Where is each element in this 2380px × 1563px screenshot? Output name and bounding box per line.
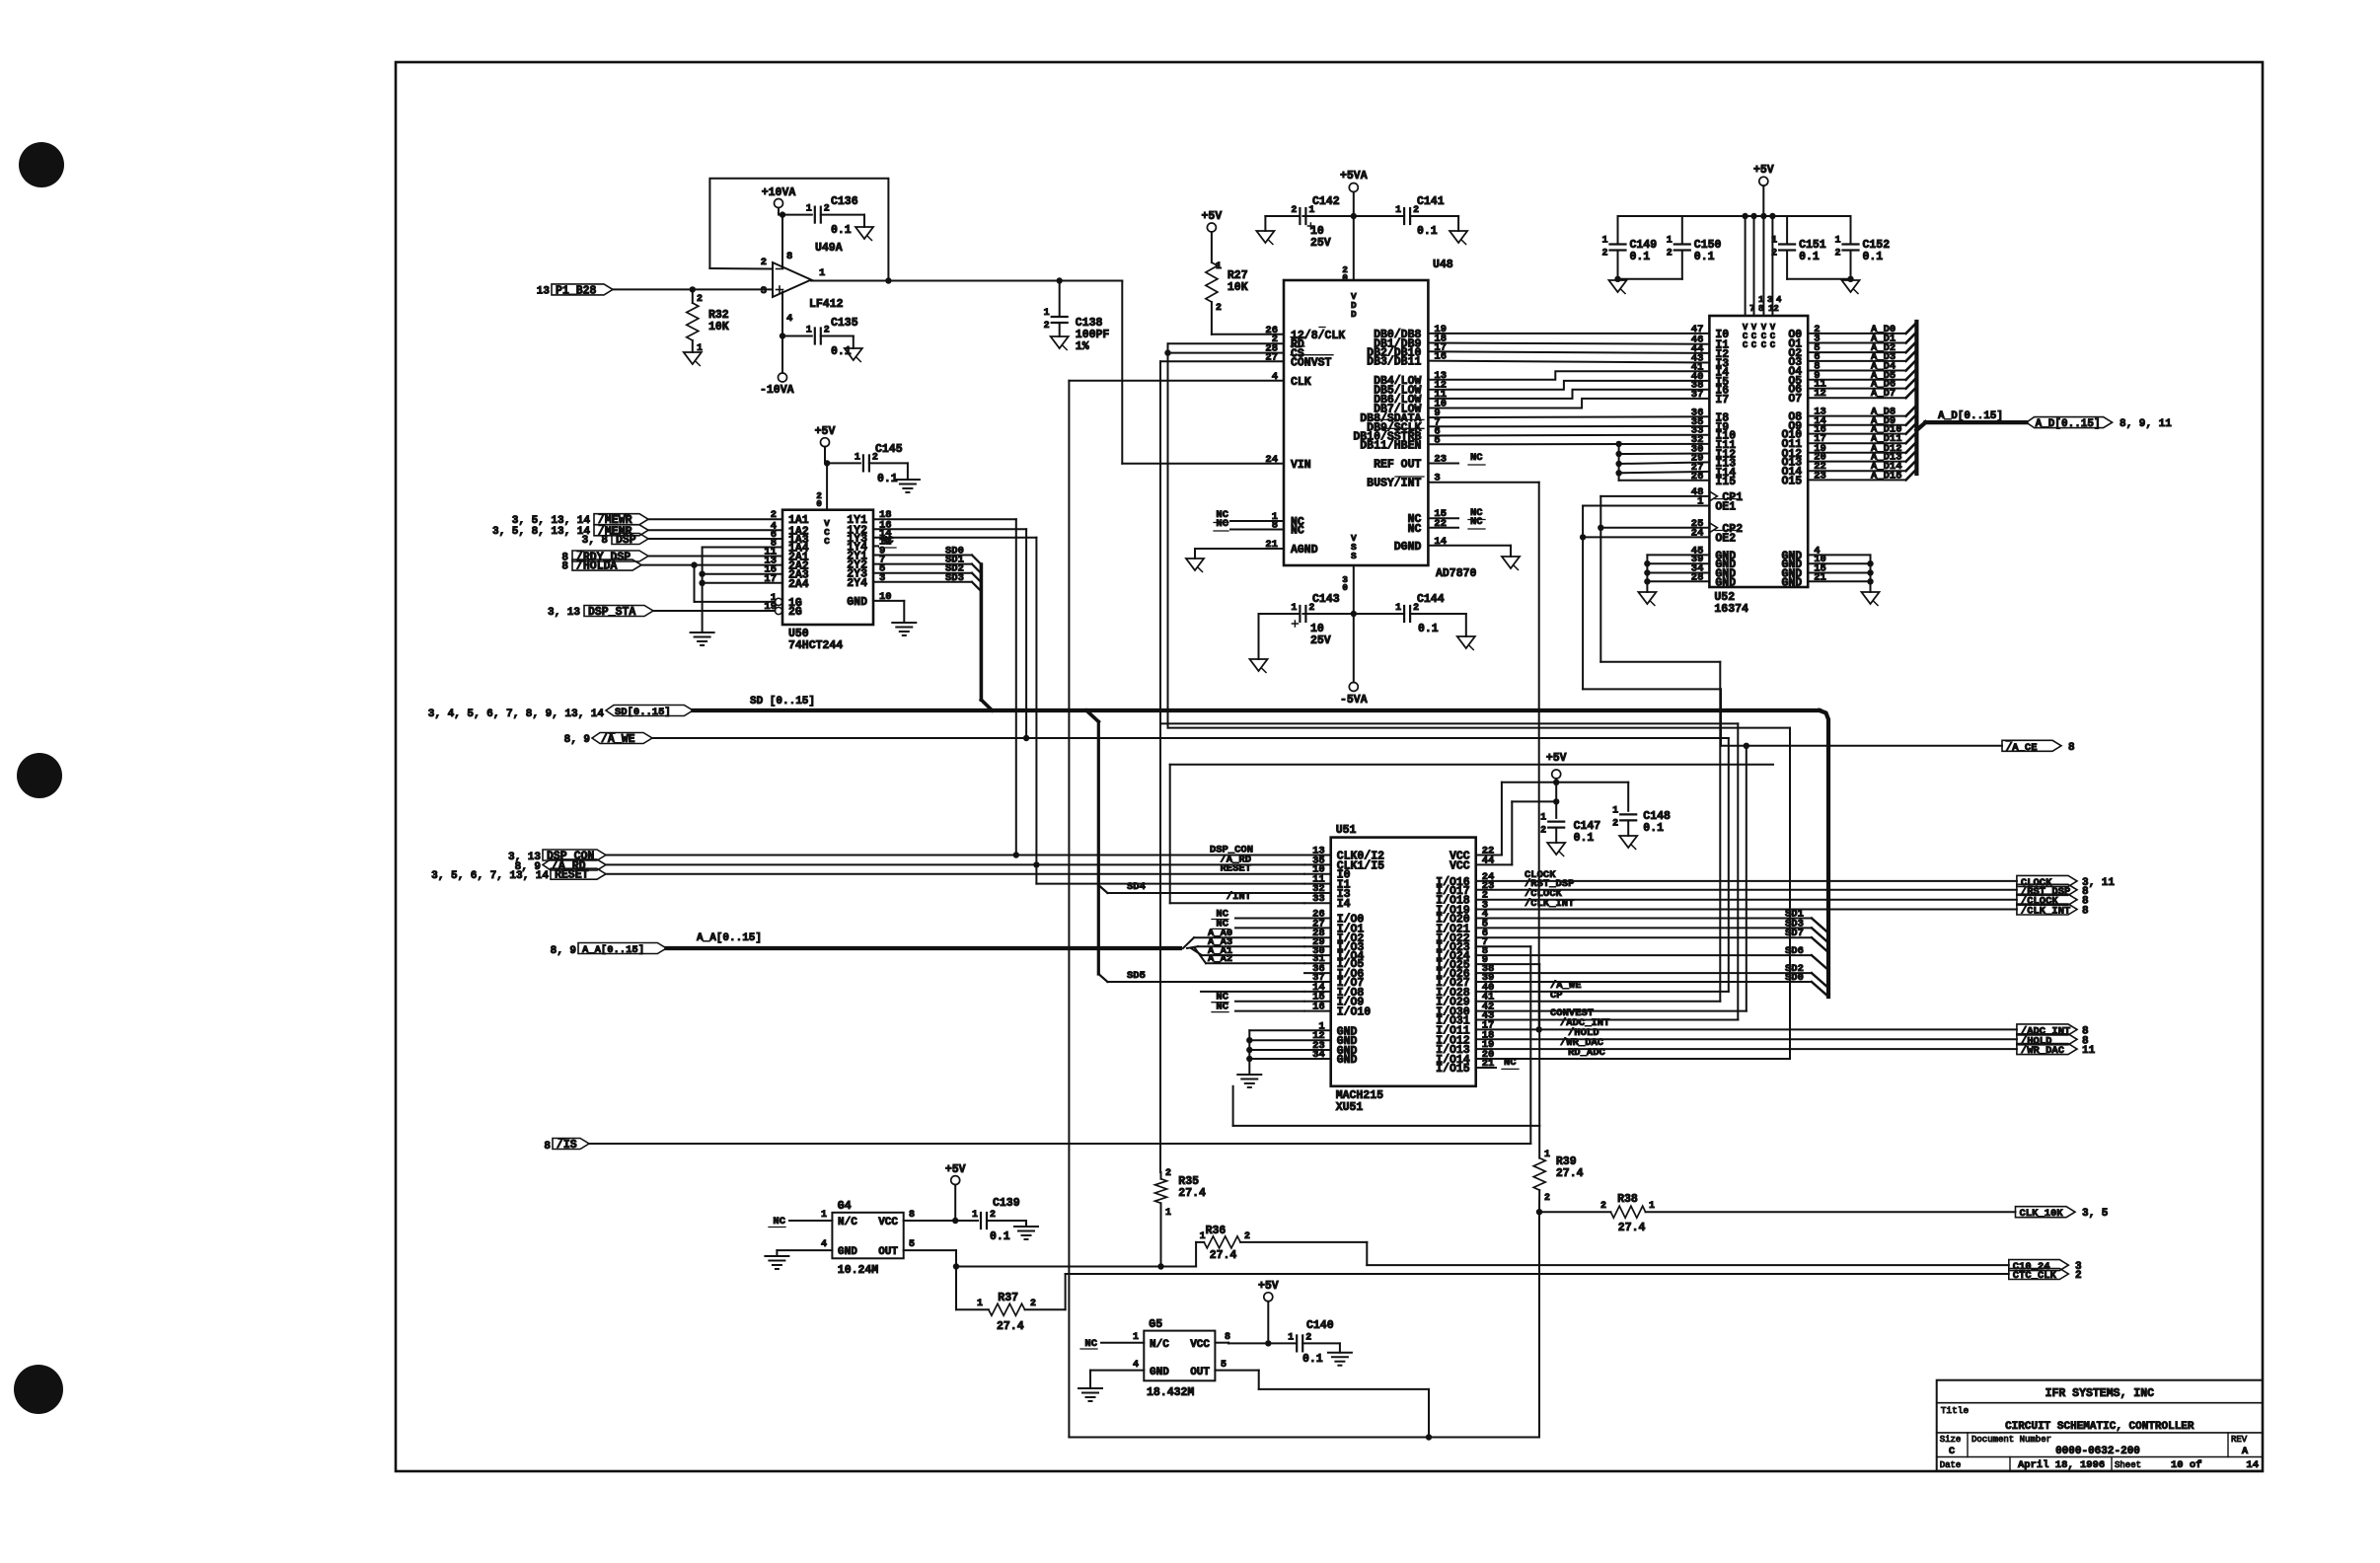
wire CP1/CP2 net	[1600, 495, 1709, 497]
wire 18.432M bottom run	[1069, 1437, 1539, 1439]
output tag /CLK_INT	[1476, 909, 2017, 911]
svg-text:1: 1	[1165, 1208, 1171, 1219]
oscillator G5 box	[1144, 1331, 1215, 1381]
wires sign extension I12-I15	[1618, 444, 1620, 481]
svg-text:+5V: +5V	[1753, 164, 1774, 177]
svg-text:/WR_DAC: /WR_DAC	[2021, 1045, 2065, 1057]
ground at C148	[1619, 836, 1637, 848]
svg-text:Sheet: Sheet	[2115, 1460, 2141, 1470]
wire DSP	[648, 538, 782, 540]
svg-text:DGND: DGND	[1394, 541, 1422, 554]
svg-text:NC: NC	[1470, 516, 1483, 528]
wire +5VA rail	[1302, 215, 1404, 217]
power +5V terminal above U51	[1552, 770, 1561, 779]
power -5VA terminal	[1349, 683, 1358, 692]
resistor R36 27.4	[1195, 1242, 1197, 1267]
svg-text:1: 1	[1649, 1201, 1655, 1212]
svg-text:10K: 10K	[1227, 281, 1248, 294]
svg-text:GND: GND	[1781, 576, 1802, 589]
svg-text:/A_CE: /A_CE	[2006, 742, 2038, 754]
svg-text:U51: U51	[1336, 824, 1357, 837]
wire 1G enable net	[694, 565, 696, 602]
svg-text:A_A2: A_A2	[1208, 953, 1232, 965]
wire CLK down	[1069, 380, 1284, 382]
node R32 junction	[690, 286, 696, 292]
svg-text:CLK_10K: CLK_10K	[2020, 1208, 2064, 1220]
svg-text:7: 7	[1749, 304, 1754, 314]
svg-text:NC: NC	[1408, 523, 1422, 536]
wire VSS	[1353, 565, 1355, 683]
svg-text:Title: Title	[1941, 1405, 1970, 1416]
svg-text:8, 9, 11: 8, 9, 11	[2120, 418, 2172, 430]
svg-text:8: 8	[2068, 742, 2075, 754]
svg-text:0.1: 0.1	[831, 345, 852, 358]
wire to C148	[1556, 781, 1628, 783]
svg-text:C141: C141	[1417, 195, 1445, 208]
svg-text:C: C	[1743, 340, 1748, 350]
svg-text:U48: U48	[1433, 259, 1453, 271]
svg-text:VIN: VIN	[1291, 459, 1311, 472]
svg-text:I/O10: I/O10	[1337, 1006, 1372, 1019]
resistor R35 27.4	[1160, 1172, 1162, 1179]
output tag C10_24	[2009, 1260, 2069, 1271]
svg-text:C: C	[824, 536, 830, 547]
wire C138 to ground	[1059, 323, 1061, 336]
svg-text:XU51: XU51	[1336, 1101, 1364, 1114]
wire non-inverting input	[613, 288, 773, 290]
svg-text:Date: Date	[1940, 1460, 1962, 1470]
svg-text:3, 5: 3, 5	[2082, 1208, 2109, 1220]
svg-text:AGND: AGND	[1291, 544, 1318, 557]
svg-text:3, 5, 6, 7, 13, 14: 3, 5, 6, 7, 13, 14	[431, 870, 549, 882]
svg-text:2: 2	[761, 257, 767, 268]
wire inverting input	[709, 267, 773, 270]
svg-text:1: 1	[1667, 236, 1673, 247]
svg-text:+5V: +5V	[1202, 210, 1223, 223]
power +10VA terminal	[775, 199, 783, 208]
ground at C138	[1051, 336, 1069, 348]
svg-text:8: 8	[1758, 304, 1763, 314]
svg-text:2G: 2G	[788, 606, 802, 619]
svg-text:/HOLDA: /HOLDA	[576, 560, 618, 573]
svg-text:I15: I15	[1715, 476, 1736, 488]
svg-text:A: A	[2242, 1446, 2249, 1457]
G5 VCC wire	[1215, 1342, 1228, 1344]
hole punch dot 1	[19, 142, 64, 187]
wire U50 GND pin 10	[873, 600, 904, 602]
svg-text:3, 8: 3, 8	[582, 535, 609, 547]
svg-text:0.1: 0.1	[1302, 1353, 1323, 1366]
svg-text:P1_B28: P1_B28	[556, 284, 597, 297]
svg-text:/IS: /IS	[557, 1139, 577, 1152]
svg-text:S: S	[1351, 551, 1357, 561]
ground U52 right	[1862, 592, 1880, 604]
output tag /A_CE	[1721, 745, 2002, 747]
svg-text:SD3: SD3	[945, 572, 964, 584]
wire RESET	[606, 873, 1304, 875]
svg-text:5: 5	[909, 1239, 915, 1250]
node op-amp output	[885, 277, 891, 283]
node R38 junction	[1536, 1209, 1542, 1215]
svg-text:3, 13: 3, 13	[548, 607, 580, 619]
wires U52 outputs A_D0-A_D15	[1808, 333, 1905, 335]
svg-text:27.4: 27.4	[1556, 1167, 1584, 1180]
svg-text:I4: I4	[1337, 898, 1351, 911]
svg-text:10.24M: 10.24M	[838, 1264, 879, 1277]
svg-text:D: D	[1351, 309, 1357, 320]
power +5V terminal above U52	[1759, 177, 1768, 186]
output tag /HOLD	[1476, 1038, 2017, 1040]
op-amp U49A feedback loop wire	[709, 179, 888, 281]
svg-text:NC: NC	[1084, 1338, 1097, 1350]
svg-text:10 of: 10 of	[2171, 1459, 2202, 1471]
svg-text:C139: C139	[993, 1197, 1020, 1210]
svg-text:8: 8	[561, 561, 568, 573]
svg-text:Document Number: Document Number	[1971, 1435, 2051, 1445]
svg-text:GND: GND	[1715, 576, 1736, 589]
wire C139 to ground	[987, 1220, 1026, 1222]
svg-text:I7: I7	[1715, 394, 1729, 407]
output tag CTC_CLK	[2009, 1269, 2069, 1280]
svg-text:1: 1	[1834, 236, 1840, 247]
wire under U51 to R39	[1233, 1125, 1540, 1127]
svg-text:SD6: SD6	[1785, 945, 1804, 957]
svg-text:13: 13	[537, 286, 551, 298]
wire op-amp V+ pin8	[781, 215, 783, 267]
wire to C138	[1059, 281, 1061, 318]
svg-text:OE1: OE1	[1715, 501, 1736, 514]
capacitor C138 100PF	[1052, 316, 1068, 318]
U48 NC stubs	[1230, 520, 1284, 522]
svg-text:A_A[0..15]: A_A[0..15]	[582, 944, 644, 956]
U51 left pin stubs	[1304, 855, 1331, 856]
wire C10_24 net	[1367, 1264, 2009, 1266]
svg-text:2: 2	[2075, 1270, 2082, 1282]
svg-text:C144: C144	[1417, 593, 1445, 606]
svg-text:1: 1	[1601, 236, 1607, 247]
svg-text:SD [0..15]: SD [0..15]	[750, 696, 815, 707]
U48 pin name overlines	[1319, 327, 1325, 329]
svg-text:2: 2	[824, 326, 830, 336]
svg-text:1: 1	[972, 1210, 978, 1221]
svg-text:O15: O15	[1781, 475, 1802, 487]
ground at C149	[1609, 280, 1627, 292]
wire VCC pin 44	[1476, 863, 1513, 865]
hole punch dot 3	[14, 1365, 63, 1414]
svg-text:2: 2	[824, 204, 830, 215]
wire output to VIN	[1121, 281, 1123, 464]
power -10VA terminal	[779, 373, 787, 382]
svg-text:SD[0..15]: SD[0..15]	[615, 707, 671, 718]
svg-text:NC: NC	[1216, 918, 1228, 930]
svg-text:REV: REV	[2231, 1435, 2248, 1445]
title block date/sheet	[2009, 1457, 2011, 1471]
svg-text:C145: C145	[875, 443, 903, 456]
wire 1Y2 to /A_WE column	[873, 528, 1026, 530]
wires U52 left GND pins	[1647, 554, 1709, 556]
wire +5V decoupling rail	[1618, 215, 1851, 217]
ground at U50 inputs	[691, 632, 714, 633]
svg-text:2: 2	[1305, 1332, 1311, 1343]
svg-text:NC: NC	[1291, 525, 1304, 538]
svg-text:C143: C143	[1312, 593, 1340, 606]
svg-text:0: 0	[1342, 582, 1348, 593]
bus SD[0..15] horizontal	[693, 708, 1820, 712]
wire /INT	[1170, 902, 1304, 904]
bus A_A horizontal	[666, 946, 1180, 950]
wire SD4/SD5 branch vertical	[1097, 721, 1100, 974]
capacitor C150 0.1	[1681, 216, 1683, 245]
wire 1Y3 to /A_RD column	[873, 537, 1036, 539]
svg-text:OE2: OE2	[1715, 532, 1736, 545]
ground at C136	[855, 227, 873, 239]
wire /RDY_DSP	[648, 556, 782, 558]
ground at C139	[1014, 1226, 1038, 1228]
wire /HOLDA	[641, 564, 782, 566]
svg-text:DB3/DB11: DB3/DB11	[1367, 356, 1421, 369]
svg-text:27.4: 27.4	[1618, 1222, 1646, 1234]
title block frame	[1937, 1380, 2263, 1471]
power +5V terminal at G5	[1264, 1293, 1273, 1302]
svg-text:OUT: OUT	[1190, 1367, 1210, 1378]
svg-text:1: 1	[821, 1210, 827, 1221]
wire /MEMR	[648, 529, 782, 531]
output tag /ADC_INT	[1476, 1028, 2017, 1030]
wire OE1/OE2 net	[1583, 505, 1709, 507]
svg-text:VCC: VCC	[1450, 859, 1470, 872]
capacitor C148 0.1	[1620, 813, 1636, 815]
svg-text:CTC_CLK: CTC_CLK	[2013, 1270, 2057, 1282]
svg-text:2: 2	[1540, 826, 1546, 837]
svg-text:OUT: OUT	[878, 1246, 898, 1258]
svg-text:1: 1	[1540, 813, 1546, 824]
capacitor C151 0.1	[1786, 216, 1788, 245]
svg-text:2: 2	[1165, 1168, 1171, 1179]
svg-text:0.1: 0.1	[1694, 251, 1715, 263]
power +5VA terminal	[1349, 184, 1358, 192]
wire SD5 branch	[1098, 974, 1107, 982]
svg-text:2: 2	[1667, 249, 1673, 260]
svg-text:1: 1	[1133, 1332, 1139, 1343]
capacitor C143 10/25V	[1299, 606, 1301, 622]
svg-text:1: 1	[977, 1299, 983, 1309]
resistor R37 27.4	[955, 1267, 957, 1310]
capacitor C147 0.1	[1548, 820, 1564, 822]
bus A_D vertical	[1914, 322, 1918, 474]
wire VDD	[1353, 192, 1355, 281]
ground at C143	[1250, 659, 1268, 671]
svg-text:2: 2	[1601, 249, 1607, 260]
svg-text:SD7: SD7	[1785, 928, 1804, 939]
svg-text:3, 5, 8, 13, 14: 3, 5, 8, 13, 14	[492, 526, 590, 538]
svg-text:2: 2	[1771, 249, 1777, 260]
wire CONVST down	[1160, 360, 1284, 362]
bus A_D horizontal	[1916, 422, 1925, 430]
svg-text:1: 1	[855, 452, 860, 463]
svg-text:8: 8	[786, 251, 792, 262]
svg-text:G5: G5	[1149, 1318, 1162, 1331]
svg-text:GND: GND	[1150, 1367, 1169, 1378]
svg-text:GND: GND	[847, 596, 867, 609]
svg-text:LF412: LF412	[809, 298, 844, 311]
svg-text:8, 9: 8, 9	[564, 734, 590, 746]
wire /IS	[589, 1143, 1530, 1145]
svg-text:N/C: N/C	[838, 1217, 857, 1228]
wire RD_ADC	[1476, 1058, 1790, 1060]
svg-text:3: 3	[761, 285, 767, 297]
hole punch dot 2	[17, 753, 62, 798]
ground at G4	[765, 1255, 788, 1257]
svg-text:C: C	[1770, 340, 1776, 350]
wire C149/C150 ground tie	[1618, 278, 1682, 280]
wire AGND	[1195, 548, 1284, 550]
svg-text:CLK: CLK	[1291, 376, 1311, 389]
wire DSP_STA to 2G	[653, 610, 775, 612]
svg-text:A_A[0..15]: A_A[0..15]	[697, 932, 762, 944]
wire I/O25 net down	[1476, 963, 1540, 965]
wire C141 to ground	[1410, 215, 1458, 217]
svg-text:A_D15: A_D15	[1871, 470, 1902, 482]
svg-text:16374: 16374	[1714, 603, 1748, 616]
wire I/O23 to /IS net	[1476, 945, 1531, 947]
svg-text:R38: R38	[1617, 1193, 1638, 1206]
G4 OUT wire	[904, 1249, 956, 1251]
svg-text:DSP: DSP	[616, 534, 636, 547]
svg-text:1: 1	[1544, 1150, 1550, 1160]
svg-text:NC: NC	[1216, 1002, 1228, 1013]
svg-text:Size: Size	[1940, 1435, 1962, 1445]
svg-text:2Y4: 2Y4	[847, 577, 867, 590]
svg-text:DSP_STA: DSP_STA	[588, 606, 635, 619]
ground at U51	[1237, 1074, 1261, 1076]
svg-text:/CLK_INT: /CLK_INT	[1525, 898, 1574, 910]
G5 NC stub	[1101, 1342, 1144, 1344]
svg-text:GND: GND	[838, 1246, 857, 1258]
resistor R39 27.4	[1538, 1126, 1540, 1158]
svg-text:0: 0	[1342, 272, 1348, 283]
svg-text:RESET: RESET	[1220, 863, 1251, 875]
svg-text:+5V: +5V	[1258, 1280, 1279, 1293]
wire C144 to ground	[1410, 613, 1466, 615]
svg-text:DB11/HBEN: DB11/HBEN	[1360, 439, 1421, 452]
capacitor C144 0.1	[1403, 606, 1405, 622]
svg-text:27.4: 27.4	[1210, 1249, 1237, 1262]
svg-text:1: 1	[1291, 603, 1297, 614]
wires U52 VCC columns	[1745, 216, 1747, 316]
svg-text:NC: NC	[1216, 518, 1228, 530]
svg-text:N/C: N/C	[1150, 1339, 1169, 1351]
svg-text:8, 9: 8, 9	[551, 945, 576, 957]
capacitor C142 10/25V	[1299, 208, 1301, 224]
capacitor C152 0.1	[1850, 216, 1852, 245]
svg-text:RESET: RESET	[555, 869, 589, 882]
svg-text:+5VA: +5VA	[1340, 170, 1368, 183]
wire C145 to ground	[869, 462, 908, 464]
G4 VCC wire	[904, 1220, 956, 1222]
svg-text:0.1: 0.1	[1417, 225, 1438, 238]
output tag CLK_10K	[2016, 1207, 2076, 1218]
wire DGND	[1428, 545, 1511, 547]
svg-text:NC: NC	[1470, 452, 1483, 464]
svg-text:12: 12	[1768, 304, 1779, 314]
svg-text:I/O15: I/O15	[1436, 1063, 1470, 1076]
wire C142 to ground	[1265, 215, 1300, 217]
wires U51 GND pins	[1249, 1029, 1330, 1031]
svg-text:-5VA: -5VA	[1340, 694, 1368, 707]
ground at G5	[1078, 1387, 1102, 1389]
svg-text:24: 24	[1265, 454, 1278, 466]
svg-text:C140: C140	[1306, 1319, 1334, 1332]
wire 1A4/2A3/2A4 ground net	[703, 547, 782, 549]
svg-text:0000-0632-200: 0000-0632-200	[2055, 1446, 2140, 1457]
svg-text:1: 1	[1044, 308, 1050, 319]
svg-text:+10VA: +10VA	[762, 186, 796, 199]
capacitor C140 0.1	[1296, 1335, 1298, 1351]
svg-text:C135: C135	[831, 317, 858, 330]
wire C136 to ground	[821, 214, 864, 216]
svg-text:0.1: 0.1	[1863, 251, 1884, 263]
bus tag A_D[0..15] to sheets 8 9 11	[2027, 417, 2113, 428]
svg-text:-10VA: -10VA	[760, 384, 794, 397]
capacitor C149 0.1	[1617, 216, 1619, 245]
wire R27 to U48 pin 26	[1212, 334, 1284, 335]
wire I/O30 to /A_CE net	[1476, 1010, 1747, 1012]
power +5V terminal at G4	[951, 1176, 960, 1185]
wire VCC pin 22	[1476, 855, 1502, 856]
G5 OUT wire	[1215, 1370, 1258, 1372]
G4 NC stub	[789, 1220, 832, 1222]
svg-text:+5V: +5V	[1546, 752, 1567, 765]
ground at C152	[1842, 280, 1860, 292]
G5 GND wire	[1090, 1370, 1144, 1372]
svg-text:1: 1	[1771, 236, 1777, 247]
svg-text:AD7870: AD7870	[1436, 567, 1477, 580]
svg-text:11: 11	[2082, 1045, 2096, 1057]
wires U52 right GND pins	[1808, 554, 1870, 556]
svg-text:25V: 25V	[1310, 634, 1331, 647]
svg-text:SD4: SD4	[1127, 881, 1146, 893]
PLD U51 box	[1331, 838, 1476, 1086]
ground at U50 GND	[892, 622, 916, 624]
U48 overlines right	[1371, 418, 1424, 420]
power +5V terminal at R27	[1207, 223, 1216, 232]
output tag /RST_DSP	[1476, 889, 2017, 891]
G4 GND wire	[777, 1249, 832, 1251]
wire op-amp output	[811, 280, 1122, 282]
wire RD/CS net	[1168, 342, 1285, 344]
ground at C142	[1256, 231, 1274, 243]
U51 I/O15 NC stub	[1476, 1067, 1496, 1069]
wire 10.24M node	[956, 1266, 1196, 1268]
svg-text:0.1: 0.1	[1799, 251, 1820, 263]
svg-text:CONVST: CONVST	[1291, 356, 1332, 369]
svg-text:2: 2	[1044, 321, 1050, 332]
power +5V terminal above U50	[821, 438, 830, 447]
svg-text:4: 4	[786, 313, 792, 325]
output tag /CLOCK	[1476, 899, 2017, 901]
svg-text:26: 26	[1691, 471, 1704, 483]
resistor R38 27.4	[1539, 1211, 1610, 1213]
op-amp U49A	[773, 262, 811, 297]
wire -5VA rail	[1302, 613, 1404, 615]
svg-text:2: 2	[1291, 205, 1297, 216]
capacitor C136	[814, 207, 816, 223]
svg-text:O7: O7	[1788, 393, 1802, 406]
svg-text:+5V: +5V	[815, 425, 836, 438]
svg-text:0.1: 0.1	[1418, 623, 1439, 635]
wires U51 SD taps into bus	[1476, 918, 1812, 920]
wire 1Y1 to DSP_CON column	[873, 518, 1016, 520]
